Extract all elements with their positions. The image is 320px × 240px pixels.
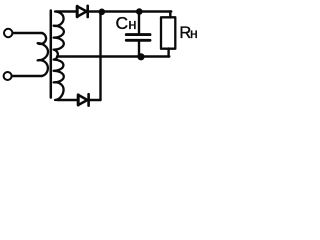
svg-text:С: С <box>116 13 129 33</box>
svg-text:н: н <box>128 16 136 33</box>
svg-text:н: н <box>190 25 198 41</box>
